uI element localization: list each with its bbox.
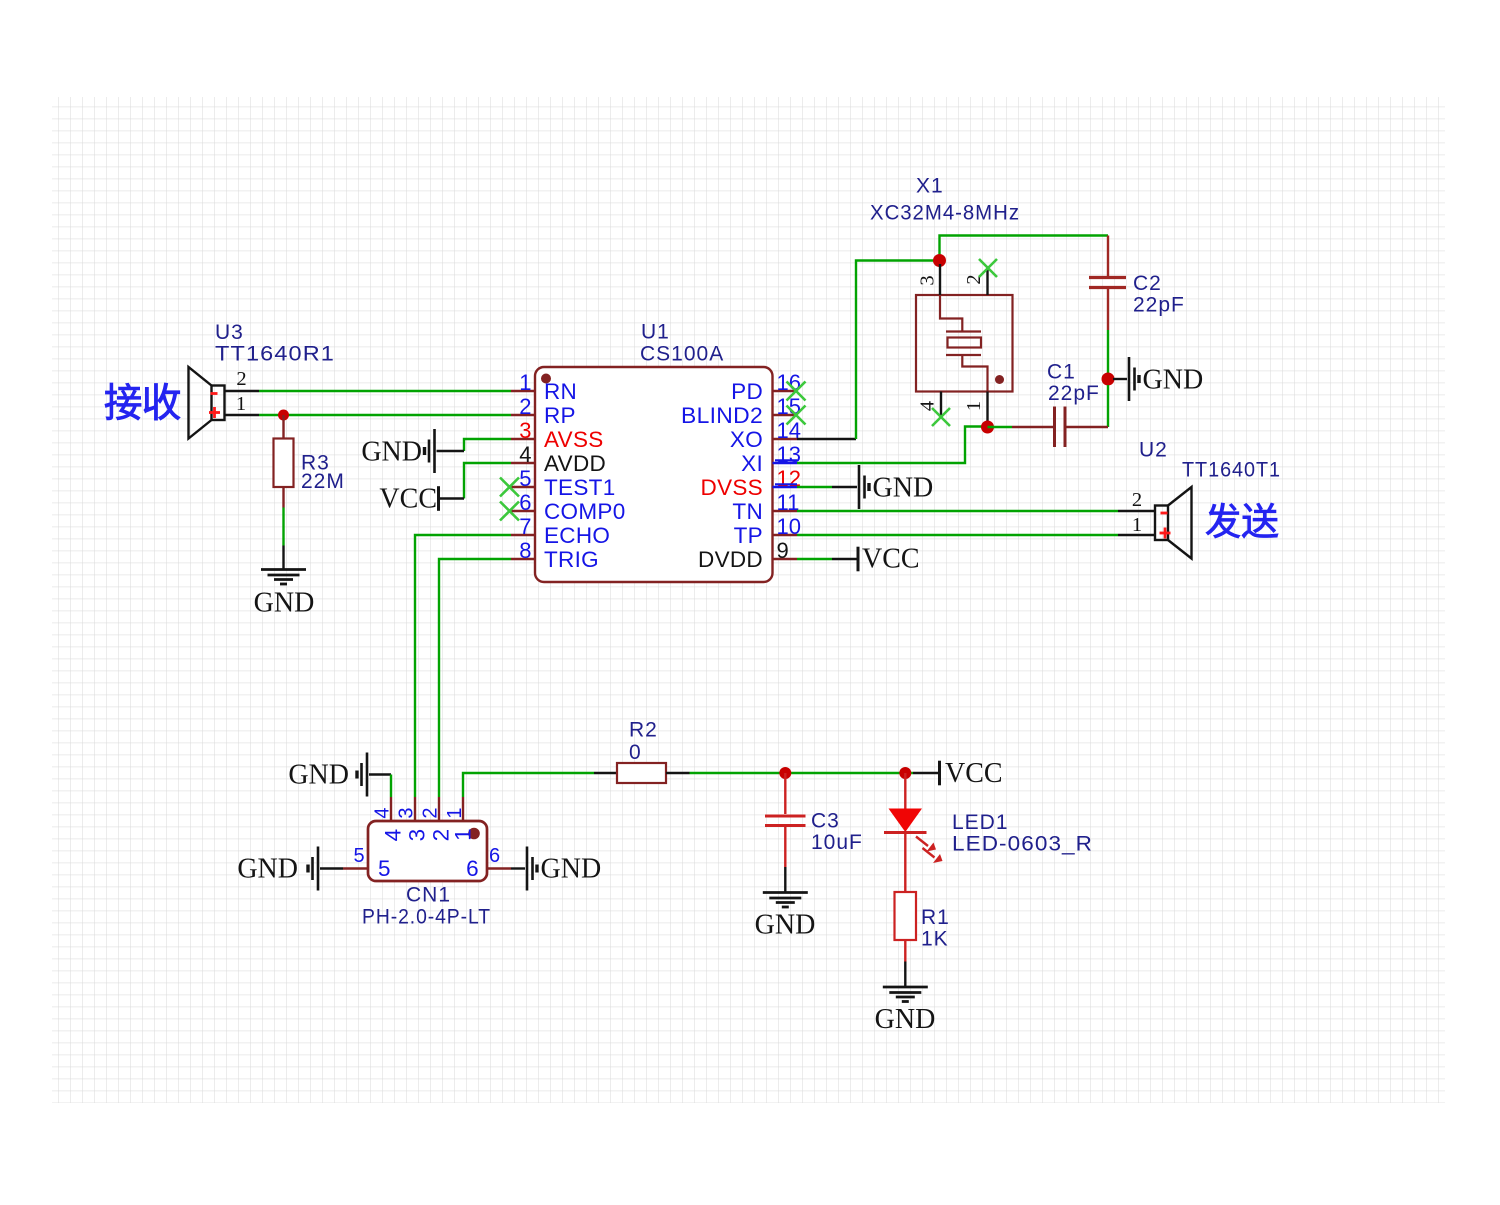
wire U3 pin1 to U1 RP — [259, 414, 511, 416]
U1 pin 3 AVSS — [511, 438, 535, 440]
wire TRIG to CN1 pin2 — [439, 559, 511, 797]
svg-text:4: 4 — [381, 829, 406, 842]
U1 pin 6 COMP0 — [511, 510, 535, 512]
svg-text:3: 3 — [917, 275, 939, 285]
node C2/C1/GND junction — [1102, 373, 1115, 386]
IC U1 body — [535, 367, 773, 582]
svg-text:R2: R2 — [629, 719, 658, 742]
svg-text:22pF: 22pF — [1133, 294, 1185, 317]
svg-text:RP: RP — [544, 403, 576, 428]
X1 pin-1 indicator dot — [995, 375, 1004, 384]
svg-text:C1: C1 — [1047, 361, 1076, 384]
U1 pin 15 BLIND2 — [773, 414, 798, 416]
transducer U2 — [1118, 487, 1192, 559]
svg-text:10uF: 10uF — [811, 831, 863, 854]
wire CN1 pin1 to rail — [463, 773, 594, 797]
wire XI to crystal pin1 — [797, 427, 983, 464]
svg-text:6: 6 — [489, 845, 500, 867]
svg-text:PD: PD — [731, 379, 763, 404]
no-connect X pin6 — [500, 502, 519, 521]
svg-text:RN: RN — [544, 379, 577, 404]
svg-text:11: 11 — [777, 490, 800, 515]
svg-text:1: 1 — [451, 828, 476, 841]
X1 pin 3 — [939, 264, 941, 295]
svg-text:GND: GND — [288, 760, 349, 791]
svg-text:CS100A: CS100A — [640, 343, 724, 366]
svg-text:GND: GND — [755, 910, 816, 941]
svg-text:TT1640R1: TT1640R1 — [215, 343, 335, 366]
X1 pin 2 (nc) — [986, 266, 988, 295]
transducer U3 — [189, 367, 260, 439]
svg-text:0: 0 — [629, 741, 642, 764]
svg-text:R1: R1 — [921, 906, 950, 929]
svg-text:PH-2.0-4P-LT: PH-2.0-4P-LT — [362, 906, 491, 929]
resistor R3 — [282, 415, 284, 439]
X1 pin 4 (nc) — [940, 392, 942, 416]
node LED tap — [899, 767, 911, 779]
wire TP to U2 pin1 — [797, 534, 1118, 536]
svg-text:X1: X1 — [916, 175, 944, 198]
svg-text:VCC: VCC — [945, 758, 1003, 789]
svg-text:U1: U1 — [641, 321, 670, 344]
wire crystal pin1 to C1 — [988, 426, 1013, 428]
svg-text:TEST1: TEST1 — [544, 475, 616, 500]
grid background — [52, 97, 1445, 1103]
no-connect X pin15 — [787, 406, 806, 425]
svg-text:GND: GND — [1143, 364, 1204, 395]
svg-text:6: 6 — [466, 856, 479, 881]
capacitor C2 — [1107, 236, 1109, 277]
U1 pin 9 DVDD — [773, 558, 798, 560]
VCC flag (AVDD) — [437, 486, 440, 511]
wire R3 to ground — [282, 508, 284, 546]
svg-text:U3: U3 — [215, 321, 244, 344]
VCC flag (DVDD) — [857, 547, 860, 572]
capacitor C1 — [1012, 426, 1053, 428]
U1 pin 7 ECHO — [511, 534, 535, 536]
svg-text:DVSS: DVSS — [701, 475, 763, 500]
svg-text:VCC: VCC — [862, 544, 920, 575]
node C3 tap — [779, 767, 791, 779]
svg-text:1K: 1K — [921, 928, 949, 951]
svg-text:LED1: LED1 — [952, 811, 1009, 834]
U1 pin-1 indicator dot — [541, 374, 551, 384]
svg-text:TN: TN — [732, 499, 763, 524]
U1 pin 16 PD — [773, 390, 798, 392]
svg-text:XO: XO — [730, 427, 763, 452]
wire ECHO to CN1 pin3 — [415, 535, 511, 797]
node crystal pin1 junction — [981, 421, 994, 434]
svg-text:4: 4 — [519, 442, 531, 467]
wire crystal top loop — [940, 236, 1109, 261]
svg-text:AVDD: AVDD — [544, 451, 606, 476]
svg-text:GND: GND — [361, 436, 422, 467]
svg-text:2: 2 — [1132, 489, 1142, 511]
U1 pin 8 TRIG — [511, 558, 535, 560]
LED LED1 — [904, 773, 906, 809]
svg-text:COMP0: COMP0 — [544, 499, 626, 524]
svg-text:GND: GND — [254, 588, 315, 619]
wire U3 pin2 to U1 RN — [259, 390, 511, 392]
label fasong (send) char 2 — [1242, 503, 1278, 538]
node crystal pin3 junction — [933, 254, 946, 267]
wire DVSS to GND flag — [797, 486, 832, 488]
svg-text:22pF: 22pF — [1048, 382, 1100, 405]
no-connect X pin16 — [787, 382, 806, 401]
U1 pin 1 RN — [511, 390, 535, 392]
svg-text:5: 5 — [353, 845, 364, 867]
svg-text:7: 7 — [519, 514, 531, 539]
U1 pin 4 AVDD — [511, 462, 535, 464]
svg-text:8: 8 — [519, 538, 531, 563]
svg-text:GND: GND — [875, 1004, 936, 1035]
svg-text:CN1: CN1 — [406, 884, 451, 907]
svg-text:TT1640T1: TT1640T1 — [1182, 459, 1281, 482]
GND flag (AVSS) — [433, 429, 436, 473]
wire AVSS to GND flag — [464, 439, 511, 451]
U1 pin 11 TN — [773, 510, 798, 512]
svg-text:XI: XI — [741, 451, 763, 476]
svg-text:C2: C2 — [1133, 272, 1162, 295]
svg-text:3: 3 — [396, 807, 418, 818]
U1 pin 2 RP — [511, 414, 535, 416]
crystal X1 body — [916, 295, 1013, 392]
U1 pin 13 XI — [773, 462, 798, 464]
node junction RP/R3 — [278, 410, 289, 421]
svg-text:3: 3 — [405, 829, 430, 842]
svg-text:1: 1 — [444, 807, 466, 818]
svg-text:GND: GND — [873, 472, 934, 503]
svg-text:VCC: VCC — [379, 484, 437, 515]
svg-text:3: 3 — [519, 418, 531, 443]
connector CN1 — [390, 797, 392, 821]
resistor R1 — [904, 833, 906, 893]
svg-text:2: 2 — [236, 368, 246, 390]
wire CN1 pin4 — [390, 775, 392, 798]
wire junction down to C1 — [1107, 385, 1109, 427]
svg-text:2: 2 — [519, 394, 531, 419]
svg-text:22M: 22M — [301, 470, 345, 493]
svg-text:5: 5 — [519, 466, 531, 491]
svg-text:TRIG: TRIG — [544, 547, 599, 572]
GND flag (DVSS) — [858, 465, 861, 509]
GND flag (CN1 pin6) — [511, 867, 525, 869]
svg-text:AVSS: AVSS — [544, 427, 604, 452]
svg-text:XC32M4-8MHz: XC32M4-8MHz — [870, 202, 1020, 225]
ground below R1 — [904, 962, 906, 987]
label jieshou (receive) char 1 — [105, 383, 141, 420]
svg-text:1: 1 — [236, 393, 246, 415]
wire C2 to GND junction — [1107, 330, 1109, 373]
wire AVDD to VCC flag — [464, 463, 511, 499]
label jieshou (receive) char 2 — [144, 383, 180, 420]
svg-text:TP: TP — [734, 523, 763, 548]
svg-text:1: 1 — [1132, 514, 1142, 536]
svg-text:ECHO: ECHO — [544, 523, 610, 548]
U1 pin 14 XO — [773, 438, 798, 440]
ground below R3 — [261, 568, 306, 571]
svg-text:1: 1 — [963, 401, 985, 411]
svg-text:1: 1 — [519, 370, 531, 395]
wire DVDD to VCC flag — [797, 558, 832, 560]
GND flag (crystal) — [1113, 378, 1127, 380]
U1 pin 5 TEST1 — [511, 486, 535, 488]
svg-text:GND: GND — [237, 854, 298, 885]
svg-text:4: 4 — [372, 807, 394, 818]
svg-text:DVDD: DVDD — [698, 547, 763, 572]
svg-text:LED-0603_R: LED-0603_R — [952, 833, 1093, 856]
ground below C3 — [784, 867, 786, 892]
label fasong (send) char 1 — [1206, 503, 1240, 538]
VCC flag (rail) — [913, 772, 938, 774]
svg-text:U2: U2 — [1139, 439, 1168, 462]
no-connect X pin5 — [500, 478, 519, 497]
wire XO to crystal pin3 — [797, 438, 856, 440]
U1 pin 10 TP — [773, 534, 798, 536]
svg-text:C3: C3 — [811, 810, 840, 833]
svg-text:5: 5 — [378, 856, 391, 881]
wire R2 to VCC — [690, 772, 914, 774]
svg-text:BLIND2: BLIND2 — [681, 403, 763, 428]
svg-text:6: 6 — [519, 490, 531, 515]
svg-text:GND: GND — [541, 854, 602, 885]
resistor R2 — [594, 772, 617, 774]
X1 pin 1 — [986, 392, 988, 422]
wire TN to U2 pin2 — [797, 510, 1118, 512]
svg-text:2: 2 — [420, 807, 442, 818]
svg-text:9: 9 — [777, 538, 789, 563]
U1 pin 12 DVSS — [773, 486, 798, 488]
capacitor C3 — [784, 773, 786, 814]
